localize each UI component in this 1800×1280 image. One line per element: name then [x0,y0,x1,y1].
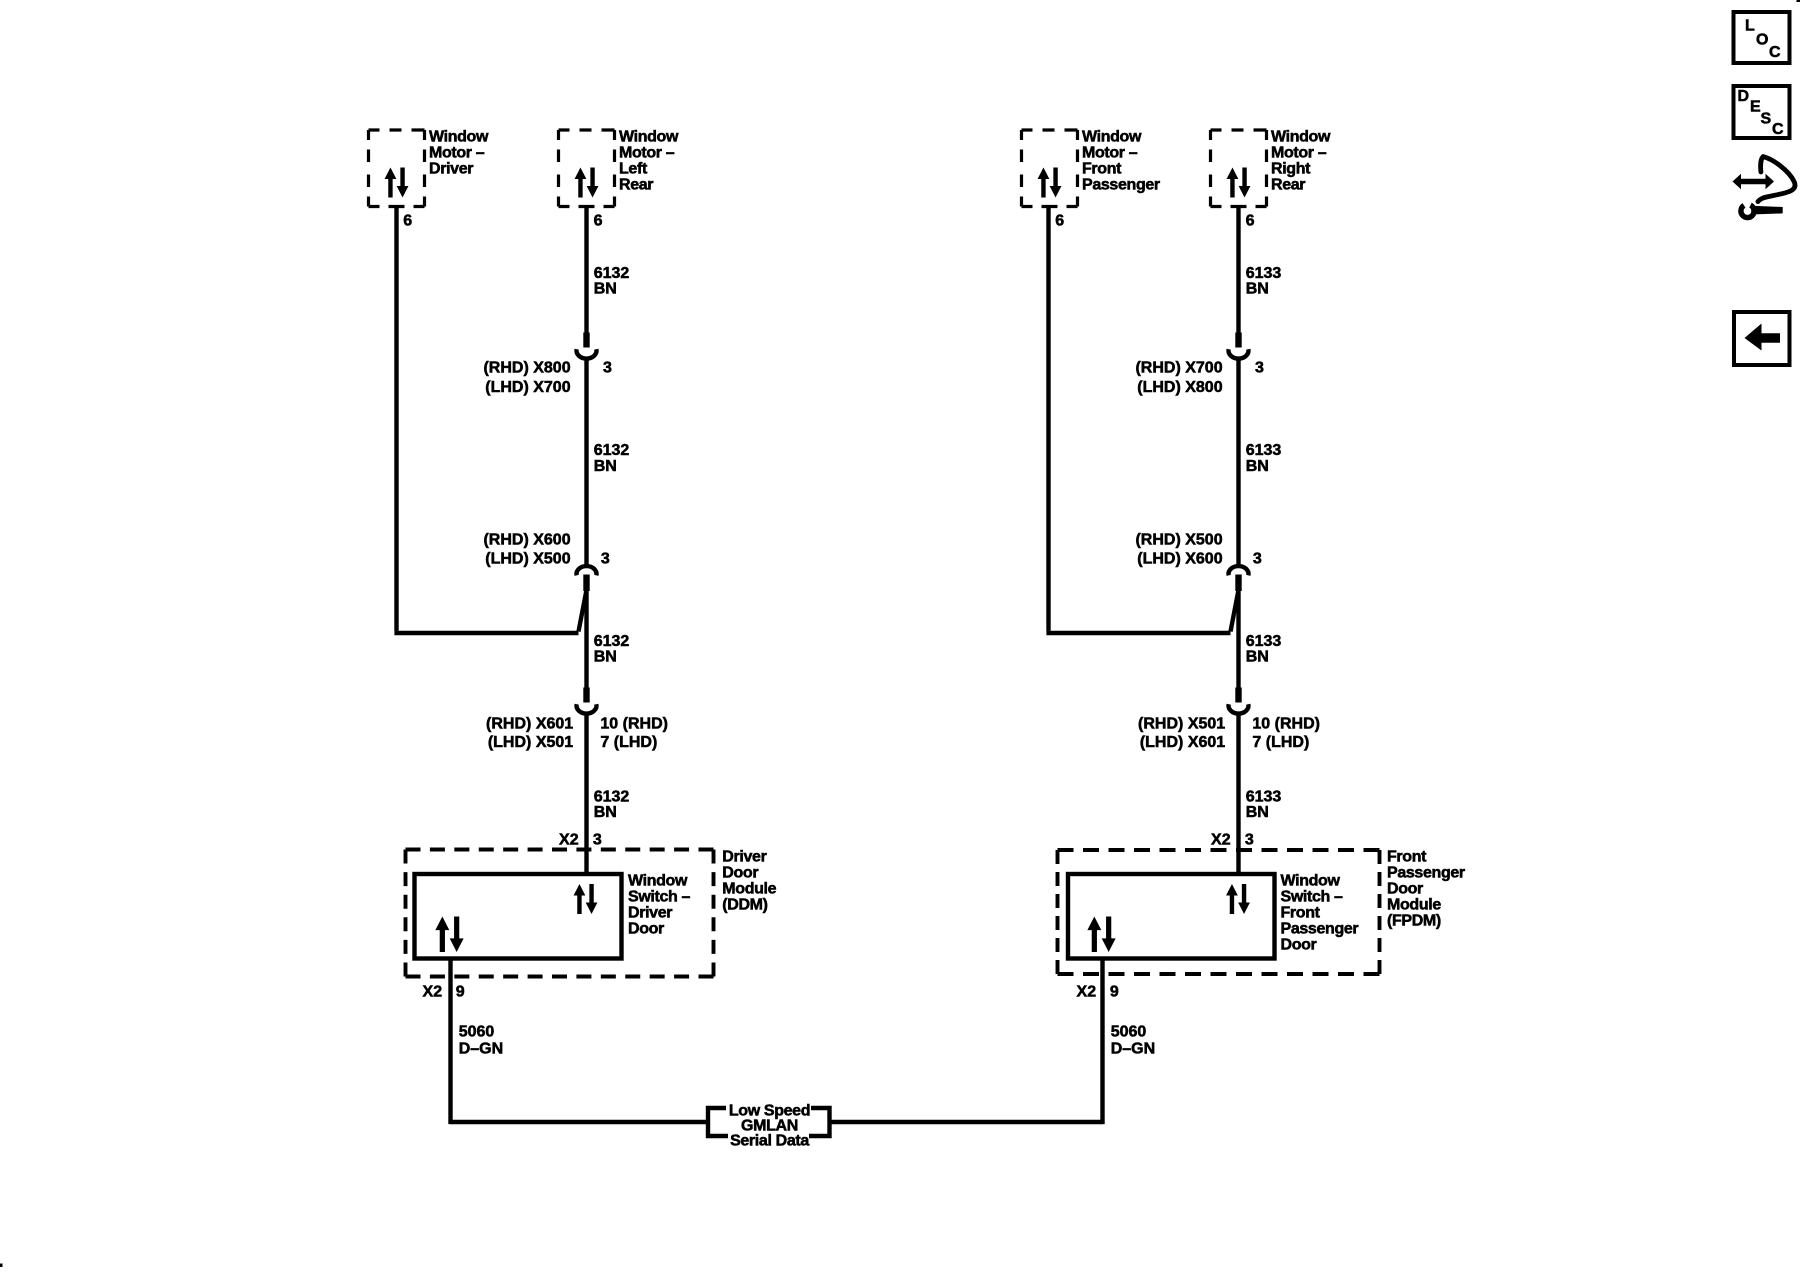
svg-text:6133: 6133 [1246,633,1282,650]
svg-text:D: D [1738,88,1750,105]
svg-text:6132: 6132 [594,442,630,459]
svg-text:Window: Window [1082,129,1142,146]
svg-text:Front: Front [1281,905,1321,922]
svg-text:3: 3 [601,550,610,567]
svg-text:9: 9 [456,984,465,1001]
svg-text:S: S [1761,111,1772,128]
svg-text:5060: 5060 [1111,1024,1147,1041]
svg-text:6133: 6133 [1246,442,1282,459]
svg-text:BN: BN [594,280,617,297]
svg-text:X2: X2 [1077,984,1097,1001]
svg-text:3: 3 [1253,550,1262,567]
svg-text:6132: 6132 [594,788,630,805]
svg-text:6133: 6133 [1246,265,1282,282]
svg-text:Rear: Rear [1271,177,1305,194]
svg-text:(RHD) X600: (RHD) X600 [483,531,570,548]
svg-text:7 (LHD): 7 (LHD) [1252,734,1309,751]
svg-text:X2: X2 [1211,831,1231,848]
svg-text:9: 9 [1110,984,1119,1001]
svg-text:(LHD) X700: (LHD) X700 [485,379,570,396]
svg-text:Passenger: Passenger [1082,177,1160,194]
svg-text:5060: 5060 [459,1024,495,1041]
svg-text:3: 3 [593,831,602,848]
svg-text:Module: Module [722,881,776,898]
svg-text:10 (RHD): 10 (RHD) [1252,715,1320,732]
svg-text:Door: Door [1387,881,1423,898]
svg-text:Module: Module [1387,897,1441,914]
svg-text:X2: X2 [423,984,443,1001]
svg-text:6: 6 [1246,213,1255,230]
svg-text:E: E [1750,99,1761,116]
svg-text:Door: Door [628,921,664,938]
svg-text:BN: BN [594,648,617,665]
svg-text:6: 6 [594,213,603,230]
svg-text:Window: Window [1281,873,1341,890]
svg-text:(FPDM): (FPDM) [1387,913,1441,930]
svg-text:Switch –: Switch – [628,889,691,906]
svg-text:D–GN: D–GN [459,1041,503,1058]
svg-text:Door: Door [1281,937,1317,954]
svg-text:(RHD) X500: (RHD) X500 [1135,531,1222,548]
svg-text:Rear: Rear [619,177,653,194]
svg-text:Driver: Driver [628,905,672,922]
svg-text:6132: 6132 [594,265,630,282]
svg-text:3: 3 [603,360,612,377]
svg-text:Motor –: Motor – [429,145,485,162]
svg-text:Window: Window [1271,129,1331,146]
svg-text:C: C [1772,121,1784,138]
svg-text:6: 6 [1055,213,1064,230]
svg-text:6: 6 [403,213,412,230]
svg-text:Motor –: Motor – [1271,145,1327,162]
svg-text:BN: BN [1246,458,1269,475]
svg-text:Right: Right [1271,161,1311,178]
svg-text:(RHD) X601: (RHD) X601 [486,715,573,732]
svg-text:BN: BN [594,458,617,475]
svg-text:Switch –: Switch – [1281,889,1344,906]
svg-text:7 (LHD): 7 (LHD) [600,734,657,751]
svg-text:(DDM): (DDM) [722,897,767,914]
svg-text:Passenger: Passenger [1281,921,1359,938]
svg-text:3: 3 [1245,831,1254,848]
svg-text:(LHD) X501: (LHD) X501 [488,734,573,751]
svg-text:D–GN: D–GN [1111,1041,1155,1058]
svg-text:BN: BN [1246,804,1269,821]
svg-text:Driver: Driver [429,161,473,178]
svg-text:(RHD) X501: (RHD) X501 [1138,715,1225,732]
svg-text:(LHD) X500: (LHD) X500 [485,550,570,567]
svg-text:Left: Left [619,161,648,178]
svg-text:BN: BN [1246,280,1269,297]
svg-text:Window: Window [628,873,688,890]
svg-text:(LHD) X800: (LHD) X800 [1137,379,1222,396]
svg-text:Motor –: Motor – [619,145,675,162]
svg-text:3: 3 [1255,360,1264,377]
svg-text:BN: BN [1246,648,1269,665]
svg-text:6133: 6133 [1246,788,1282,805]
svg-text:(LHD) X601: (LHD) X601 [1140,734,1225,751]
svg-text:6132: 6132 [594,633,630,650]
svg-text:L: L [1745,18,1755,35]
svg-text:Front: Front [1387,849,1427,866]
svg-text:BN: BN [594,804,617,821]
svg-text:(LHD) X600: (LHD) X600 [1137,550,1222,567]
svg-text:Serial Data: Serial Data [730,1133,809,1150]
svg-text:Motor –: Motor – [1082,145,1138,162]
svg-text:Front: Front [1082,161,1122,178]
svg-text:X2: X2 [559,831,579,848]
svg-text:Window: Window [429,129,489,146]
svg-text:Door: Door [722,865,758,882]
svg-text:10 (RHD): 10 (RHD) [600,715,668,732]
svg-text:Passenger: Passenger [1387,865,1465,882]
svg-text:C: C [1769,44,1781,61]
svg-text:(RHD) X700: (RHD) X700 [1135,360,1222,377]
svg-text:Driver: Driver [722,849,766,866]
svg-text:Window: Window [619,129,679,146]
svg-text:O: O [1756,32,1768,49]
svg-text:(RHD) X800: (RHD) X800 [483,360,570,377]
